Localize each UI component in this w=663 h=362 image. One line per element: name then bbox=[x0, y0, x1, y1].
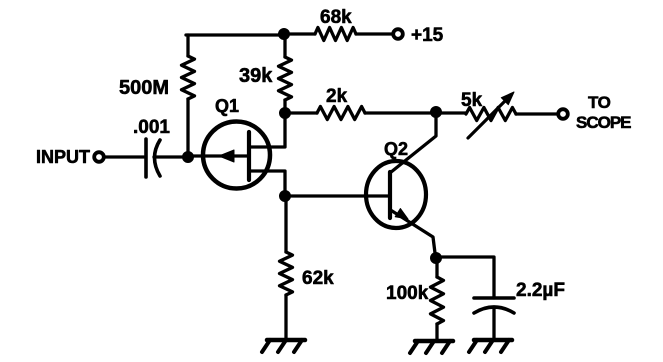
svg-text:INPUT: INPUT bbox=[36, 147, 90, 167]
node: emitter junction bbox=[431, 253, 442, 264]
wire: top rail bbox=[186, 33, 284, 36]
svg-text:68k: 68k bbox=[320, 7, 352, 28]
node: supply rail junction bbox=[279, 29, 290, 40]
transistor Q1 (JFET) bbox=[188, 96, 285, 196]
svg-text:Q1: Q1 bbox=[215, 96, 239, 116]
resistor 68k bbox=[284, 7, 393, 41]
svg-text:SCOPE: SCOPE bbox=[576, 113, 631, 132]
svg-text:39k: 39k bbox=[239, 65, 273, 87]
svg-text:+15: +15 bbox=[411, 25, 444, 46]
terminal: INPUT bbox=[36, 147, 104, 167]
svg-text:TO: TO bbox=[588, 93, 611, 112]
node: source junction bbox=[280, 191, 291, 202]
svg-text:5k: 5k bbox=[461, 90, 483, 111]
svg-text:2k: 2k bbox=[326, 86, 348, 107]
resistor 62k bbox=[280, 196, 335, 340]
ground (C2) bbox=[469, 340, 512, 352]
wire: emitter node to C2 bbox=[436, 257, 494, 298]
variable resistor 5k bbox=[436, 90, 559, 138]
node: collector junction bbox=[431, 107, 442, 118]
transistor Q2 (NPN) bbox=[366, 112, 436, 257]
node: drain junction bbox=[280, 108, 291, 119]
resistor 500M bbox=[119, 35, 195, 157]
resistor 100k bbox=[386, 258, 444, 341]
wire: source node to Q2 base bbox=[285, 194, 389, 197]
capacitor C2 2.2uF bbox=[474, 280, 565, 340]
resistor 39k bbox=[239, 34, 292, 113]
svg-text:100k: 100k bbox=[386, 283, 429, 304]
wire: input terminal to C1 bbox=[104, 155, 144, 158]
terminal: TO SCOPE bbox=[558, 93, 631, 132]
ground (100k) bbox=[410, 341, 453, 353]
resistor 2k bbox=[285, 86, 436, 120]
svg-text:500M: 500M bbox=[119, 77, 169, 99]
wire: C1 to gate node bbox=[154, 155, 188, 158]
svg-text:.001: .001 bbox=[133, 117, 170, 138]
terminal: +15 supply bbox=[393, 25, 443, 46]
capacitor C1 .001 bbox=[133, 117, 170, 177]
svg-text:62k: 62k bbox=[302, 268, 334, 289]
svg-text:2.2µF: 2.2µF bbox=[516, 280, 565, 301]
ground (62k) bbox=[262, 340, 305, 352]
node: gate junction bbox=[183, 152, 194, 163]
svg-text:Q2: Q2 bbox=[384, 139, 408, 159]
